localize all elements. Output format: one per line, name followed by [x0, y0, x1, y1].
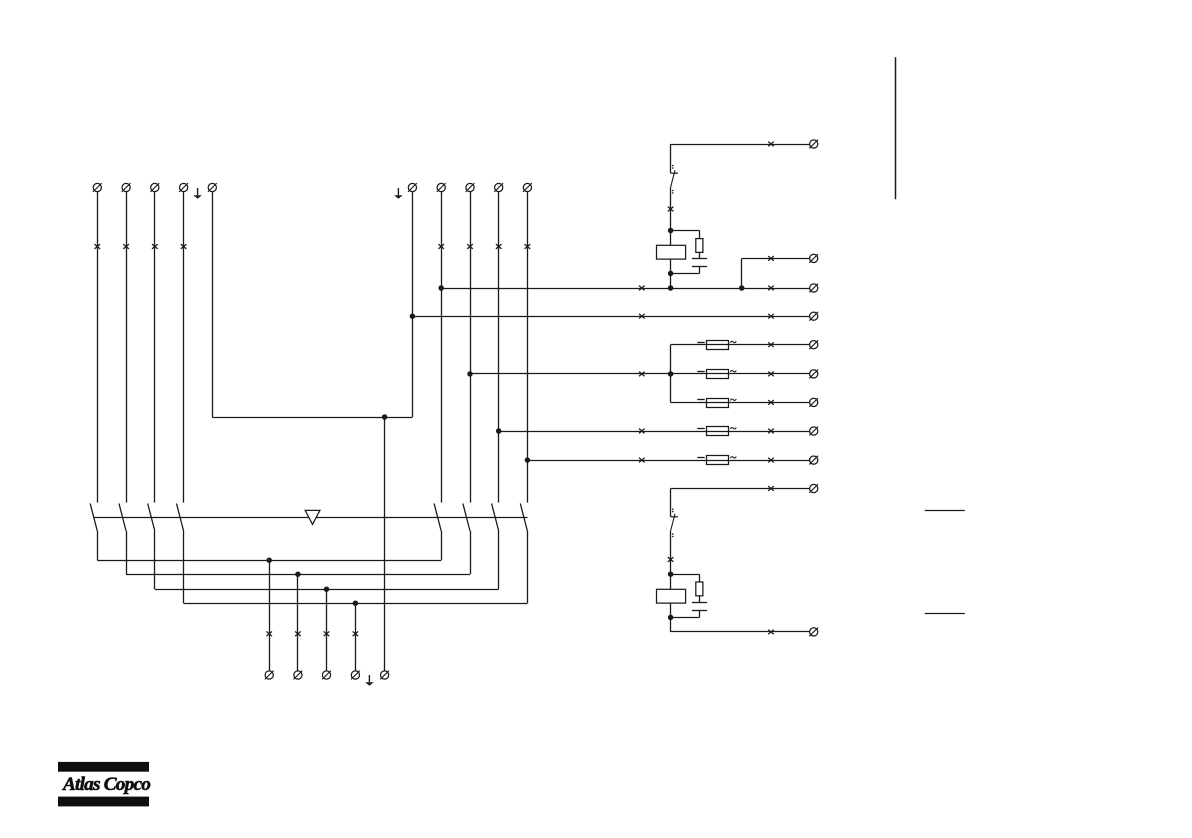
wire drop from bus B3 to terminal X3:3 — [326, 589, 328, 671]
terminal X4:2 row 258 — [809, 254, 818, 263]
terminal X3:3 — [322, 671, 331, 680]
wire from X1:5 down to node N5 — [212, 192, 214, 417]
wire fuse row 460 — [527, 460, 809, 462]
wire bus row 316 — [412, 316, 809, 318]
wire relay 1 down to contact — [670, 144, 672, 173]
connection mark relay 2 bottom row — [768, 630, 774, 635]
switch Q1 pole 6 blade — [463, 504, 470, 532]
fuse F2 — [697, 370, 736, 379]
switch Q1 linkage line — [94, 517, 528, 519]
wire branch up from bus 288 — [741, 258, 743, 288]
junction row 374 at X2:3 wire — [467, 371, 473, 377]
connection mark below contact K1 — [668, 207, 674, 212]
fuse F5 — [697, 456, 736, 465]
terminal X3:4 — [351, 671, 360, 680]
connection mark on X1:2 wire — [123, 244, 129, 249]
capacitor C1 — [692, 258, 707, 260]
junction bus 288 branch up — [739, 285, 745, 291]
frame tick lower right — [925, 613, 965, 615]
terminal X3:1 — [265, 671, 274, 680]
junction row 431 at X2:4 wire — [496, 428, 502, 434]
connection mark row 431 left — [639, 429, 645, 434]
connection mark bus 288 right — [768, 286, 774, 291]
wire from X2:5 down to switch Q1 pole 8 — [527, 192, 529, 503]
connection mark bus 288 left — [639, 286, 645, 291]
wire contact K1 to coil node — [670, 187, 672, 230]
contact K2 — [671, 508, 678, 537]
wire drop from bus B1 to terminal X3:1 — [269, 560, 271, 671]
capacitor C2 — [692, 602, 707, 604]
ground symbol (right group) — [394, 188, 403, 199]
junction relay 2 bottom node — [668, 615, 674, 621]
connection mark row 345 — [768, 342, 774, 347]
connection mark row 402 — [768, 400, 774, 405]
connection mark row 460 right — [768, 458, 774, 463]
connection mark on X2:2 wire — [438, 244, 444, 249]
wire bus B4 — [184, 603, 528, 605]
junction bus 316 at X2:1 wire — [410, 313, 416, 319]
terminal X1:5 — [208, 183, 217, 192]
terminal X4:7 row 402 — [809, 398, 818, 407]
wire fuse row 374 — [470, 373, 810, 375]
wire coil K2 bottom lead — [670, 603, 672, 617]
connection mark on X1:3 wire — [152, 244, 158, 249]
junction bus B3 to drop — [324, 586, 330, 592]
wire switch Q1 pole 2 lower lead — [126, 531, 128, 574]
wire from X2:3 down to switch Q1 pole 6 — [470, 192, 472, 503]
junction bus B2 to drop — [295, 571, 301, 577]
Atlas Copco logo bottom bar — [58, 797, 149, 807]
terminal X1:4 — [179, 183, 188, 192]
connection mark row 431 right — [768, 429, 774, 434]
wire switch Q1 pole 3 lower lead — [154, 531, 156, 589]
wire bus row 288 — [441, 288, 809, 290]
fuse F3 — [697, 399, 736, 408]
connection mark relay 1 supply — [768, 142, 774, 147]
wire relay 1 supply row — [671, 144, 810, 146]
terminal X1:2 — [122, 183, 131, 192]
connection mark on drop 2 — [295, 631, 301, 636]
terminal X4:11 row 632 — [809, 628, 818, 637]
terminal X2:5 — [523, 183, 532, 192]
fuse F4 — [697, 427, 736, 436]
wire from X1:2 down to switch Q1 pole 2 — [126, 192, 128, 503]
wire node N5 to node N6 (horizontal) — [212, 417, 412, 419]
wire drop from bus B4 to terminal X3:4 — [355, 603, 357, 671]
wire switch Q1 pole 7 lower lead — [498, 531, 500, 589]
junction bus B1 to drop — [266, 557, 272, 563]
switch Q1 pole 5 blade — [434, 504, 441, 532]
wire from X1:3 down to switch Q1 pole 3 — [154, 192, 156, 503]
connection mark relay 2 supply — [768, 486, 774, 491]
wire bus B1 — [97, 560, 441, 562]
terminal X3:2 — [294, 671, 303, 680]
terminal X2:4 — [494, 183, 503, 192]
terminal X1:3 — [150, 183, 159, 192]
ground symbol (bottom group) — [365, 675, 374, 686]
junction row 460 at X2:5 wire — [525, 457, 531, 463]
wire from X2:1 down to node N6 — [412, 192, 414, 417]
Atlas Copco logo top bar — [58, 762, 149, 772]
wire node N7 down to terminal X3:5 — [384, 417, 386, 671]
connection mark on X2:3 wire — [467, 244, 473, 249]
wire fuse riser — [670, 345, 672, 403]
wire fuse row 345 — [671, 344, 810, 346]
wire switch Q1 pole 8 lower lead — [527, 531, 529, 603]
terminal X4:6 row 374 — [809, 370, 818, 379]
terminal X4:9 row 460 — [809, 456, 818, 465]
wire bus B2 — [126, 574, 470, 576]
wire resistor R1 to capacitor C1 — [699, 252, 701, 258]
wire fuse row 431 — [499, 431, 810, 433]
wire switch Q1 pole 4 lower lead — [183, 531, 185, 603]
junction relay 2 top node — [668, 571, 674, 577]
wire resistor R2 to capacitor C2 — [699, 596, 701, 603]
connection mark on X1:1 wire — [95, 244, 101, 249]
junction bus 288 at X2:2 wire — [438, 285, 444, 291]
terminal X3:5 — [380, 671, 389, 680]
svg-text:Atlas Copco: Atlas Copco — [62, 774, 150, 795]
connection mark below contact K2 — [668, 557, 674, 562]
wire relay 2 RC branch top — [671, 574, 700, 576]
terminal X4:8 row 431 — [809, 427, 818, 436]
connection mark bus 316 left — [639, 314, 645, 319]
frame tick upper right — [925, 510, 965, 512]
wire switch Q1 pole 5 lower lead — [441, 531, 443, 560]
relay coil K2 — [657, 589, 686, 603]
wire relay 2 down to contact — [670, 489, 672, 517]
terminal X2:2 — [437, 183, 446, 192]
wire switch Q1 pole 6 lower lead — [470, 531, 472, 574]
switch Q1 pole 7 blade — [492, 504, 499, 532]
wire coil K1 top lead — [670, 231, 672, 246]
junction relay 1 top node — [668, 228, 674, 234]
wire coil K1 bottom lead — [670, 259, 672, 273]
junction relay 1 on bus row 288 — [668, 285, 674, 291]
connection mark on X1:4 wire — [181, 244, 187, 249]
node N7 junction — [382, 414, 388, 420]
terminal X2:3 — [466, 183, 475, 192]
switch Q1 pole 8 blade — [520, 504, 527, 532]
junction relay 1 bottom node — [668, 271, 674, 277]
terminal X4:5 row 345 — [809, 340, 818, 349]
ground symbol (left group) — [193, 188, 202, 199]
wire relay 1 bottom node down — [670, 273, 672, 288]
terminal X4 relay 2 supply — [809, 484, 818, 493]
wire from X2:2 down to switch Q1 pole 5 — [441, 192, 443, 503]
wire from X2:4 down to switch Q1 pole 7 — [498, 192, 500, 503]
wire capacitor C2 to bottom node — [699, 610, 701, 617]
connection mark on drop 1 — [266, 631, 272, 636]
junction bus B4 to drop — [353, 600, 359, 606]
resistor R1 — [696, 239, 703, 253]
connection mark row 374 right — [768, 372, 774, 377]
switch Q1 pole 2 blade — [119, 504, 126, 532]
terminal X4:3 row 288 — [809, 284, 818, 293]
wire relay 2 bottom row — [671, 631, 810, 633]
connection mark row 374 left — [639, 372, 645, 377]
wire switch Q1 pole 1 lower lead — [97, 531, 99, 560]
terminal X4:4 row 316 — [809, 312, 818, 321]
terminal X2:1 — [408, 183, 417, 192]
terminal X4 relay 1 supply — [809, 140, 818, 149]
connection mark on drop 3 — [324, 631, 330, 636]
terminal X1:1 — [93, 183, 102, 192]
wire bus B3 — [155, 589, 499, 591]
wire relay 2 bottom node down — [670, 617, 672, 632]
connection mark row 258 — [768, 256, 774, 261]
wire contact K2 to coil node — [670, 531, 672, 574]
wire from X1:4 down to switch Q1 pole 4 — [183, 192, 185, 503]
connection mark on X2:4 wire — [496, 244, 502, 249]
wire from X1:1 down to switch Q1 pole 1 — [97, 192, 99, 503]
wire fuse row 402 — [671, 402, 810, 404]
wire drop from bus B2 to terminal X3:2 — [297, 574, 299, 671]
wire relay 1 RC branch top — [671, 230, 700, 232]
fuse F1 — [697, 341, 736, 350]
switch Q1 actuator triangle — [305, 510, 320, 524]
junction fuse riser at row 374 — [668, 371, 674, 377]
wire coil K2 top lead — [670, 574, 672, 589]
connection mark bus 316 right — [768, 314, 774, 319]
frame divider line — [895, 57, 897, 199]
wire capacitor C1 to bottom node — [699, 266, 701, 273]
connection mark on X2:5 wire — [525, 244, 531, 249]
connection mark on drop 4 — [353, 631, 359, 636]
connection mark row 460 left — [639, 458, 645, 463]
switch Q1 pole 4 blade — [177, 504, 184, 532]
contact K1 — [671, 165, 678, 194]
switch Q1 pole 3 blade — [148, 504, 155, 532]
switch Q1 pole 1 blade — [90, 504, 97, 532]
resistor R2 — [696, 582, 703, 596]
relay coil K1 — [657, 245, 686, 259]
wire relay 2 supply row — [671, 488, 810, 490]
